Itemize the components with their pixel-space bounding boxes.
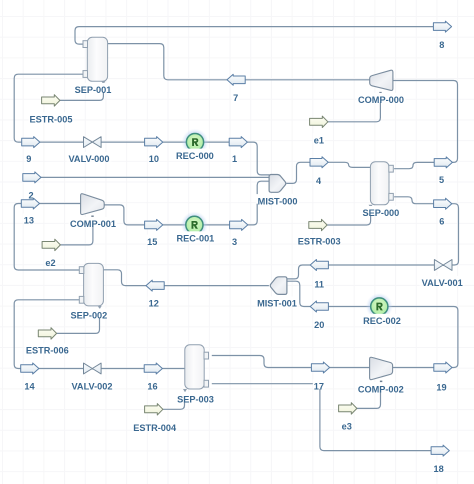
svg-text:REC-002: REC-002 [363,316,401,326]
svg-text:4: 4 [316,176,322,186]
svg-text:SEP-001: SEP-001 [75,85,112,95]
svg-text:5: 5 [439,175,444,185]
svg-text:14: 14 [24,382,35,392]
svg-text:7: 7 [233,93,238,103]
svg-text:VALV-002: VALV-002 [71,382,112,392]
svg-text:3: 3 [232,237,237,247]
svg-text:SEP-003: SEP-003 [177,395,214,405]
svg-text:11: 11 [314,280,324,290]
svg-text:13: 13 [24,216,34,226]
svg-text:19: 19 [436,383,446,393]
svg-text:COMP-001: COMP-001 [70,219,116,229]
svg-text:MIST-000: MIST-000 [258,196,298,206]
svg-text:SEP-002: SEP-002 [71,311,108,321]
svg-text:18: 18 [433,464,443,474]
svg-text:COMP-000: COMP-000 [358,95,404,105]
svg-text:16: 16 [147,382,157,392]
svg-text:8: 8 [439,40,444,50]
svg-text:12: 12 [149,299,159,309]
svg-text:e3: e3 [342,422,352,432]
svg-text:17: 17 [314,382,324,392]
svg-text:2: 2 [28,191,33,201]
svg-text:REC-001: REC-001 [177,234,215,244]
svg-text:SEP-000: SEP-000 [363,208,400,218]
svg-text:VALV-000: VALV-000 [68,154,109,164]
svg-text:COMP-002: COMP-002 [358,384,404,394]
svg-text:MIST-001: MIST-001 [257,299,297,309]
svg-text:9: 9 [26,154,31,164]
svg-text:ESTR-004: ESTR-004 [133,423,177,433]
svg-text:10: 10 [149,154,159,164]
svg-text:ESTR-003: ESTR-003 [298,237,341,247]
svg-text:6: 6 [439,217,444,227]
svg-text:ESTR-006: ESTR-006 [26,346,69,356]
svg-text:ESTR-005: ESTR-005 [30,115,73,125]
svg-text:e2: e2 [45,258,55,268]
svg-text:REC-000: REC-000 [176,151,214,161]
svg-text:20: 20 [314,320,324,330]
svg-text:15: 15 [147,237,157,247]
svg-text:1: 1 [232,154,237,164]
svg-text:e1: e1 [314,136,324,146]
svg-text:VALV-001: VALV-001 [422,278,463,288]
